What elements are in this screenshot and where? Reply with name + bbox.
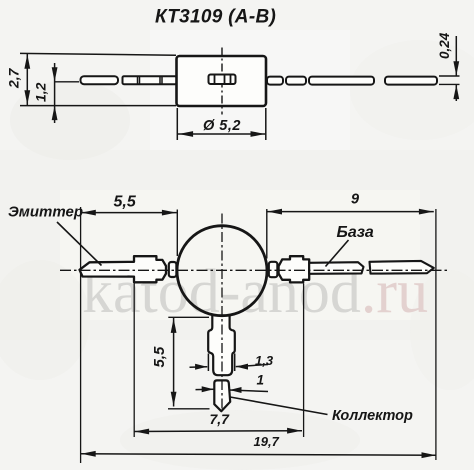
svg-text:Эмиттер: Эмиттер bbox=[8, 204, 83, 221]
svg-text:Ø 5,2: Ø 5,2 bbox=[203, 118, 241, 134]
svg-text:9: 9 bbox=[351, 192, 359, 208]
svg-text:5,5: 5,5 bbox=[114, 194, 137, 211]
svg-text:5,5: 5,5 bbox=[151, 346, 168, 368]
svg-text:Коллектор: Коллектор bbox=[332, 408, 413, 424]
svg-text:1,2: 1,2 bbox=[33, 82, 49, 102]
svg-text:19,7: 19,7 bbox=[254, 434, 280, 449]
svg-text:2,7: 2,7 bbox=[6, 67, 22, 89]
svg-text:0,24: 0,24 bbox=[437, 32, 452, 59]
svg-text:КТ3109 (А-В): КТ3109 (А-В) bbox=[155, 7, 276, 28]
svg-text:1,3: 1,3 bbox=[255, 353, 274, 368]
svg-text:7,7: 7,7 bbox=[210, 411, 231, 427]
svg-text:База: База bbox=[337, 224, 374, 241]
svg-text:1: 1 bbox=[257, 373, 265, 388]
